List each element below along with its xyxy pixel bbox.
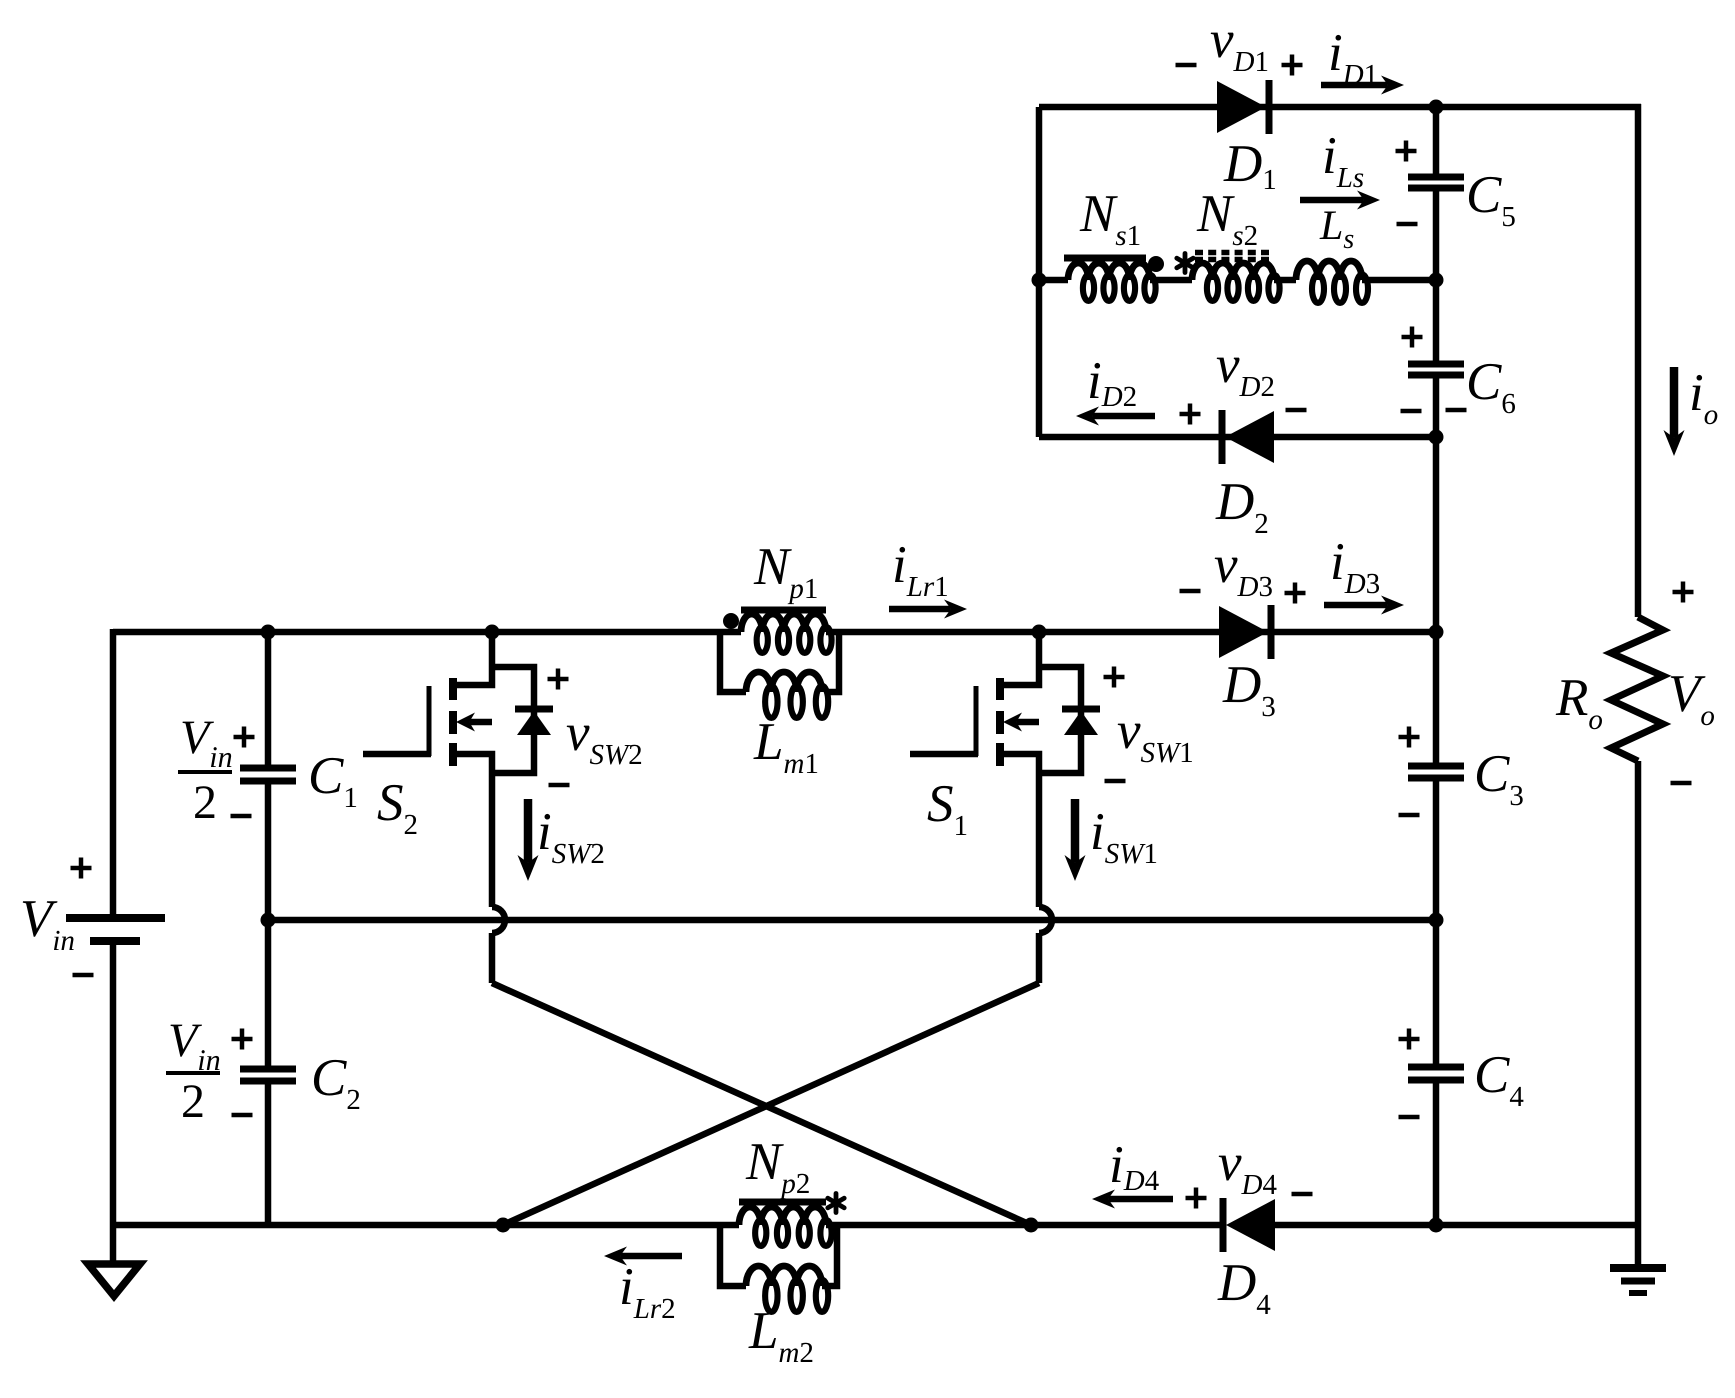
wire left rail lower <box>110 945 117 1225</box>
label i_D1 <box>1331 35 1341 70</box>
node top bus / S1 drain <box>1032 625 1047 640</box>
label i_Ls <box>1325 138 1335 173</box>
diode D2 <box>1225 411 1274 463</box>
minus C2 <box>232 1113 253 1118</box>
arrow i_D2 <box>1092 413 1155 420</box>
label C2 <box>314 1060 347 1096</box>
arrow i_o <box>1670 367 1679 438</box>
minus v_D3 <box>1180 589 1201 594</box>
capacitor C2 <box>240 1066 296 1073</box>
wire L_m2 stubs <box>720 1225 746 1286</box>
arrow i_Ls <box>1300 197 1364 204</box>
plus v_D3 <box>1285 591 1306 596</box>
label C1 <box>311 758 344 794</box>
label i_SW1 <box>1093 814 1103 849</box>
label L_m1 <box>753 724 781 759</box>
label N_s1 <box>1080 196 1118 231</box>
capacitor C5 <box>1408 174 1464 181</box>
node subckt middle / C5-C6 <box>1429 273 1444 288</box>
transistor S1 <box>996 678 1004 700</box>
label i_SW2 <box>540 814 550 849</box>
label v_D4 <box>1219 1156 1242 1181</box>
node subckt top / C5 <box>1429 100 1444 115</box>
label i_D2 <box>1090 363 1100 398</box>
minus C1 <box>231 814 252 819</box>
minus C6 left <box>1401 409 1422 414</box>
minus V_in <box>73 973 94 978</box>
label v_D2 <box>1217 358 1240 383</box>
star mark N_s2 <box>1183 254 1188 273</box>
plus v_D1 <box>1282 63 1303 68</box>
ground (right) <box>1635 1225 1642 1268</box>
arrow i_Lr2 <box>620 1253 682 1260</box>
wire subckt top <box>1039 104 1641 111</box>
label L_s <box>1320 211 1342 239</box>
label N_p2 <box>746 1144 784 1179</box>
dot mark N_s1 <box>1148 256 1164 272</box>
inductor N_s1 <box>1068 263 1150 280</box>
label i_D3 <box>1333 544 1343 579</box>
inductor L_m2 <box>746 1266 822 1286</box>
plus V_o <box>1673 590 1694 595</box>
label v_D3 <box>1215 558 1238 583</box>
node bottom bus / diag B <box>1024 1218 1039 1233</box>
label v_D1 <box>1211 33 1234 58</box>
label i_D4 <box>1112 1147 1122 1182</box>
node top bus / output column <box>1429 625 1444 640</box>
inductor N_s2 <box>1192 263 1274 280</box>
minus V_o <box>1671 781 1692 786</box>
plus v_D2 <box>1180 412 1201 417</box>
label D2 <box>1215 484 1253 519</box>
plus C3 <box>1399 735 1420 740</box>
node subckt bottom / C6 <box>1429 430 1444 445</box>
inductor L_s <box>1296 261 1362 280</box>
label C6 <box>1469 364 1502 400</box>
node top bus / S2 drain <box>485 625 500 640</box>
wire C1C2 column <box>265 632 272 765</box>
diode D3 <box>1219 606 1268 658</box>
label C3 <box>1477 756 1510 792</box>
wire left rail <box>110 629 117 914</box>
node bottom bus / diag A <box>496 1218 511 1233</box>
minus v_D2 <box>1286 408 1307 413</box>
minus C5 <box>1397 222 1418 227</box>
inductor L_m1 <box>746 672 822 692</box>
ground (left) <box>110 1225 117 1262</box>
wire subckt bottom <box>1039 434 1436 441</box>
label L_m2 <box>748 1313 776 1348</box>
minus v_SW2 <box>549 783 570 788</box>
wire diagonal S1-source to node A <box>503 983 1039 1225</box>
label V_in/2 (C2) <box>171 1025 202 1057</box>
capacitor C1 <box>240 765 296 772</box>
label N_p1 <box>754 549 792 584</box>
star mark N_p2 <box>834 1194 839 1213</box>
wire right rail lower <box>1635 761 1642 1225</box>
node subckt middle left <box>1032 273 1047 288</box>
winding bar N_p1 <box>741 607 826 614</box>
label i_Lr2 <box>622 1269 632 1304</box>
arrow i_SW2 <box>524 799 533 863</box>
minus v_D1 <box>1176 63 1197 68</box>
plus C1 <box>234 735 255 740</box>
wire subckt cap column <box>1433 107 1440 174</box>
wire L_m1 stubs <box>720 632 746 692</box>
minus C6 right <box>1446 408 1467 413</box>
plus v_D4 <box>1186 1196 1207 1201</box>
node bottom bus / C4 <box>1429 1218 1444 1233</box>
wire right rail upper <box>1635 104 1642 617</box>
arrow i_Lr1 <box>889 606 951 613</box>
wire top bus <box>113 629 741 636</box>
arrow i_D4 <box>1108 1196 1173 1203</box>
plus v_SW2 <box>548 677 569 682</box>
plus V_in <box>71 866 92 871</box>
wire subckt middle segments <box>1039 277 1068 284</box>
plus v_SW1 <box>1104 675 1125 680</box>
label S2 <box>378 785 403 821</box>
label C5 <box>1469 177 1502 213</box>
label v_SW2 <box>567 726 590 751</box>
wire output column <box>1433 632 1440 763</box>
plus C6 <box>1402 335 1423 340</box>
label v_SW1 <box>1118 724 1141 749</box>
minus v_D4 <box>1292 1192 1313 1197</box>
arrow i_D3 <box>1324 602 1388 609</box>
capacitor C6 <box>1408 361 1464 368</box>
inductor N_p2 <box>739 1207 826 1225</box>
winding bar N_s2 (dashed) <box>1195 250 1272 256</box>
label V_in/2 (C1) <box>183 722 214 754</box>
wire diagonal S2-source to node B <box>492 983 1031 1225</box>
battery V_in <box>66 914 165 922</box>
label S1 <box>928 786 953 822</box>
plus C4 <box>1399 1037 1420 1042</box>
winding bar N_p2 <box>739 1199 826 1206</box>
diode D1 <box>1217 81 1266 133</box>
label V_in <box>23 901 58 937</box>
inductor N_p1 <box>741 614 826 632</box>
capacitor C4 <box>1408 1064 1464 1071</box>
node middle bus / C3-C4 <box>1429 913 1444 928</box>
label D3 <box>1222 667 1260 702</box>
wire subckt left vertical <box>1036 107 1043 437</box>
wire bottom bus <box>110 1222 739 1229</box>
node top bus / C1 <box>261 625 276 640</box>
label V_o <box>1671 676 1706 712</box>
wire middle bus <box>268 917 1436 924</box>
node middle bus / C1-C2 <box>261 913 276 928</box>
label N_s2 <box>1197 196 1235 231</box>
resistor R_o <box>1611 617 1663 761</box>
label i_o <box>1692 375 1702 410</box>
label R_o <box>1556 680 1588 715</box>
plus C2 <box>232 1037 253 1042</box>
dot mark N_p1 <box>723 613 739 629</box>
arrow i_D1 <box>1321 82 1388 89</box>
minus C3 <box>1399 813 1420 818</box>
minus v_SW1 <box>1105 779 1126 784</box>
arrow i_SW1 <box>1071 799 1080 863</box>
diode D4 <box>1226 1199 1275 1251</box>
winding bar N_s1 <box>1064 255 1146 262</box>
plus C5 <box>1396 149 1417 154</box>
label D1 <box>1223 146 1261 181</box>
label D4 <box>1217 1265 1255 1300</box>
transistor S2 <box>449 678 457 700</box>
label C4 <box>1477 1057 1510 1093</box>
minus C4 <box>1399 1115 1420 1120</box>
capacitor C3 <box>1408 763 1464 770</box>
label i_Lr1 <box>895 547 905 582</box>
